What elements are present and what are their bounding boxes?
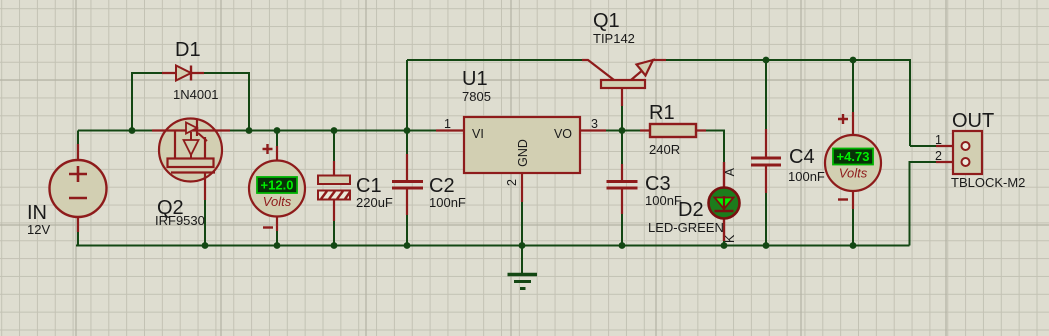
svg-text:K: K bbox=[723, 234, 737, 243]
svg-text:240R: 240R bbox=[649, 142, 680, 157]
junction node dots bbox=[129, 57, 857, 249]
svg-text:C4: C4 bbox=[789, 146, 815, 168]
wire Q2 gate to ground rail bbox=[204, 198, 206, 246]
wire top rail to Q1 collector bbox=[407, 59, 582, 61]
wire top rail Q1 emitter to output corner bbox=[666, 60, 910, 146]
wire output to TBLOCK pin1 bbox=[910, 145, 936, 147]
wire C4 top tap bbox=[765, 60, 767, 129]
wire input riser to top rail bbox=[406, 60, 408, 131]
svg-text:Volts: Volts bbox=[263, 194, 292, 209]
wire C2 bottom to rail bbox=[406, 215, 408, 246]
svg-text:100nF: 100nF bbox=[429, 195, 466, 210]
wire U1 VO to node bbox=[604, 130, 650, 132]
voltmeter VM1 bbox=[249, 144, 305, 231]
svg-text:3: 3 bbox=[591, 117, 598, 131]
svg-text:TBLOCK-M2: TBLOCK-M2 bbox=[951, 175, 1025, 190]
voltmeter VM2 bbox=[825, 112, 881, 209]
wire Q1 base down to VO node bbox=[621, 104, 623, 131]
svg-text:OUT: OUT bbox=[952, 110, 994, 132]
capacitor C2 bbox=[392, 154, 423, 215]
LED D2 bbox=[709, 162, 740, 241]
svg-text:IRF9530: IRF9530 bbox=[155, 213, 205, 228]
svg-text:7805: 7805 bbox=[462, 89, 491, 104]
svg-text:R1: R1 bbox=[649, 102, 675, 124]
wire voltmeter VM1 minus to rail bbox=[276, 231, 278, 246]
U1 pin 2 lead bbox=[521, 173, 523, 202]
U1 pin 1 lead bbox=[436, 129, 464, 131]
svg-text:A: A bbox=[723, 167, 737, 176]
wire LED cathode to rail bbox=[723, 241, 725, 246]
svg-text:D2: D2 bbox=[678, 199, 704, 221]
svg-text:D1: D1 bbox=[175, 39, 201, 61]
resistor R1 bbox=[640, 124, 706, 137]
svg-text:100nF: 100nF bbox=[645, 193, 682, 208]
wire C1 top lead bbox=[333, 131, 335, 162]
wire C2 top lead bbox=[406, 131, 408, 156]
svg-text:+4.73: +4.73 bbox=[837, 149, 870, 164]
svg-text:1N4001: 1N4001 bbox=[173, 87, 219, 102]
wire C1 bottom to rail bbox=[333, 221, 335, 246]
svg-text:GND: GND bbox=[516, 139, 530, 167]
wire R1 right to LED corner bbox=[696, 131, 724, 163]
svg-text:IN: IN bbox=[27, 202, 47, 224]
svg-text:Volts: Volts bbox=[839, 166, 868, 181]
svg-text:C2: C2 bbox=[429, 175, 455, 197]
capacitor C3 bbox=[607, 164, 638, 214]
wire C4 bottom to rail bbox=[765, 193, 767, 246]
wire C3 top lead bbox=[621, 131, 623, 165]
U1 pin 3 lead bbox=[580, 129, 606, 131]
svg-text:12V: 12V bbox=[27, 222, 50, 237]
svg-text:U1: U1 bbox=[462, 68, 488, 90]
capacitor C4 bbox=[751, 129, 781, 193]
battery V-IN bbox=[50, 144, 107, 232]
svg-text:VO: VO bbox=[554, 127, 572, 141]
svg-text:VI: VI bbox=[472, 127, 484, 141]
connector J1 TBLOCK-M2 bbox=[936, 131, 982, 174]
wire D1 cathode return down bbox=[204, 73, 249, 131]
svg-text:TIP142: TIP142 bbox=[593, 31, 635, 46]
wire ground rail up to TBLOCK pin2 bbox=[910, 162, 937, 246]
wire D1 branch up bbox=[132, 73, 162, 131]
wire main bus node VIN y=130 bbox=[78, 130, 437, 132]
wire voltmeter VM2 plus tap bbox=[852, 60, 854, 112]
regulator U1 7805 bbox=[464, 117, 580, 173]
wire U1 GND pin to ground symbol bbox=[521, 200, 523, 274]
svg-text:1: 1 bbox=[444, 117, 451, 131]
transistor Q1 TIP142 bbox=[582, 60, 666, 106]
svg-text:C1: C1 bbox=[356, 175, 382, 197]
MOSFET Q2 IRF9530 bbox=[152, 119, 230, 201]
capacitor C1 (electrolytic) bbox=[318, 161, 350, 221]
svg-text:2: 2 bbox=[935, 149, 942, 163]
wire voltmeter VM2 minus to rail bbox=[852, 209, 854, 246]
wire battery top lead bbox=[77, 131, 79, 161]
svg-text:C3: C3 bbox=[645, 173, 671, 195]
diode D1 bbox=[162, 66, 204, 81]
svg-text:+12.0: +12.0 bbox=[261, 178, 294, 193]
svg-text:LED-GREEN: LED-GREEN bbox=[648, 220, 724, 235]
ground bbox=[508, 275, 538, 289]
svg-text:100nF: 100nF bbox=[788, 169, 825, 184]
wire voltmeter VM1 plus tap bbox=[276, 131, 278, 147]
svg-text:2: 2 bbox=[505, 179, 519, 186]
wire battery bottom to ground rail bbox=[77, 232, 79, 246]
wire bottom ground rail bbox=[76, 245, 910, 247]
wire C3 bottom to rail bbox=[621, 214, 623, 246]
svg-text:1: 1 bbox=[935, 133, 942, 147]
svg-text:Q1: Q1 bbox=[593, 10, 620, 32]
svg-text:220uF: 220uF bbox=[356, 195, 393, 210]
